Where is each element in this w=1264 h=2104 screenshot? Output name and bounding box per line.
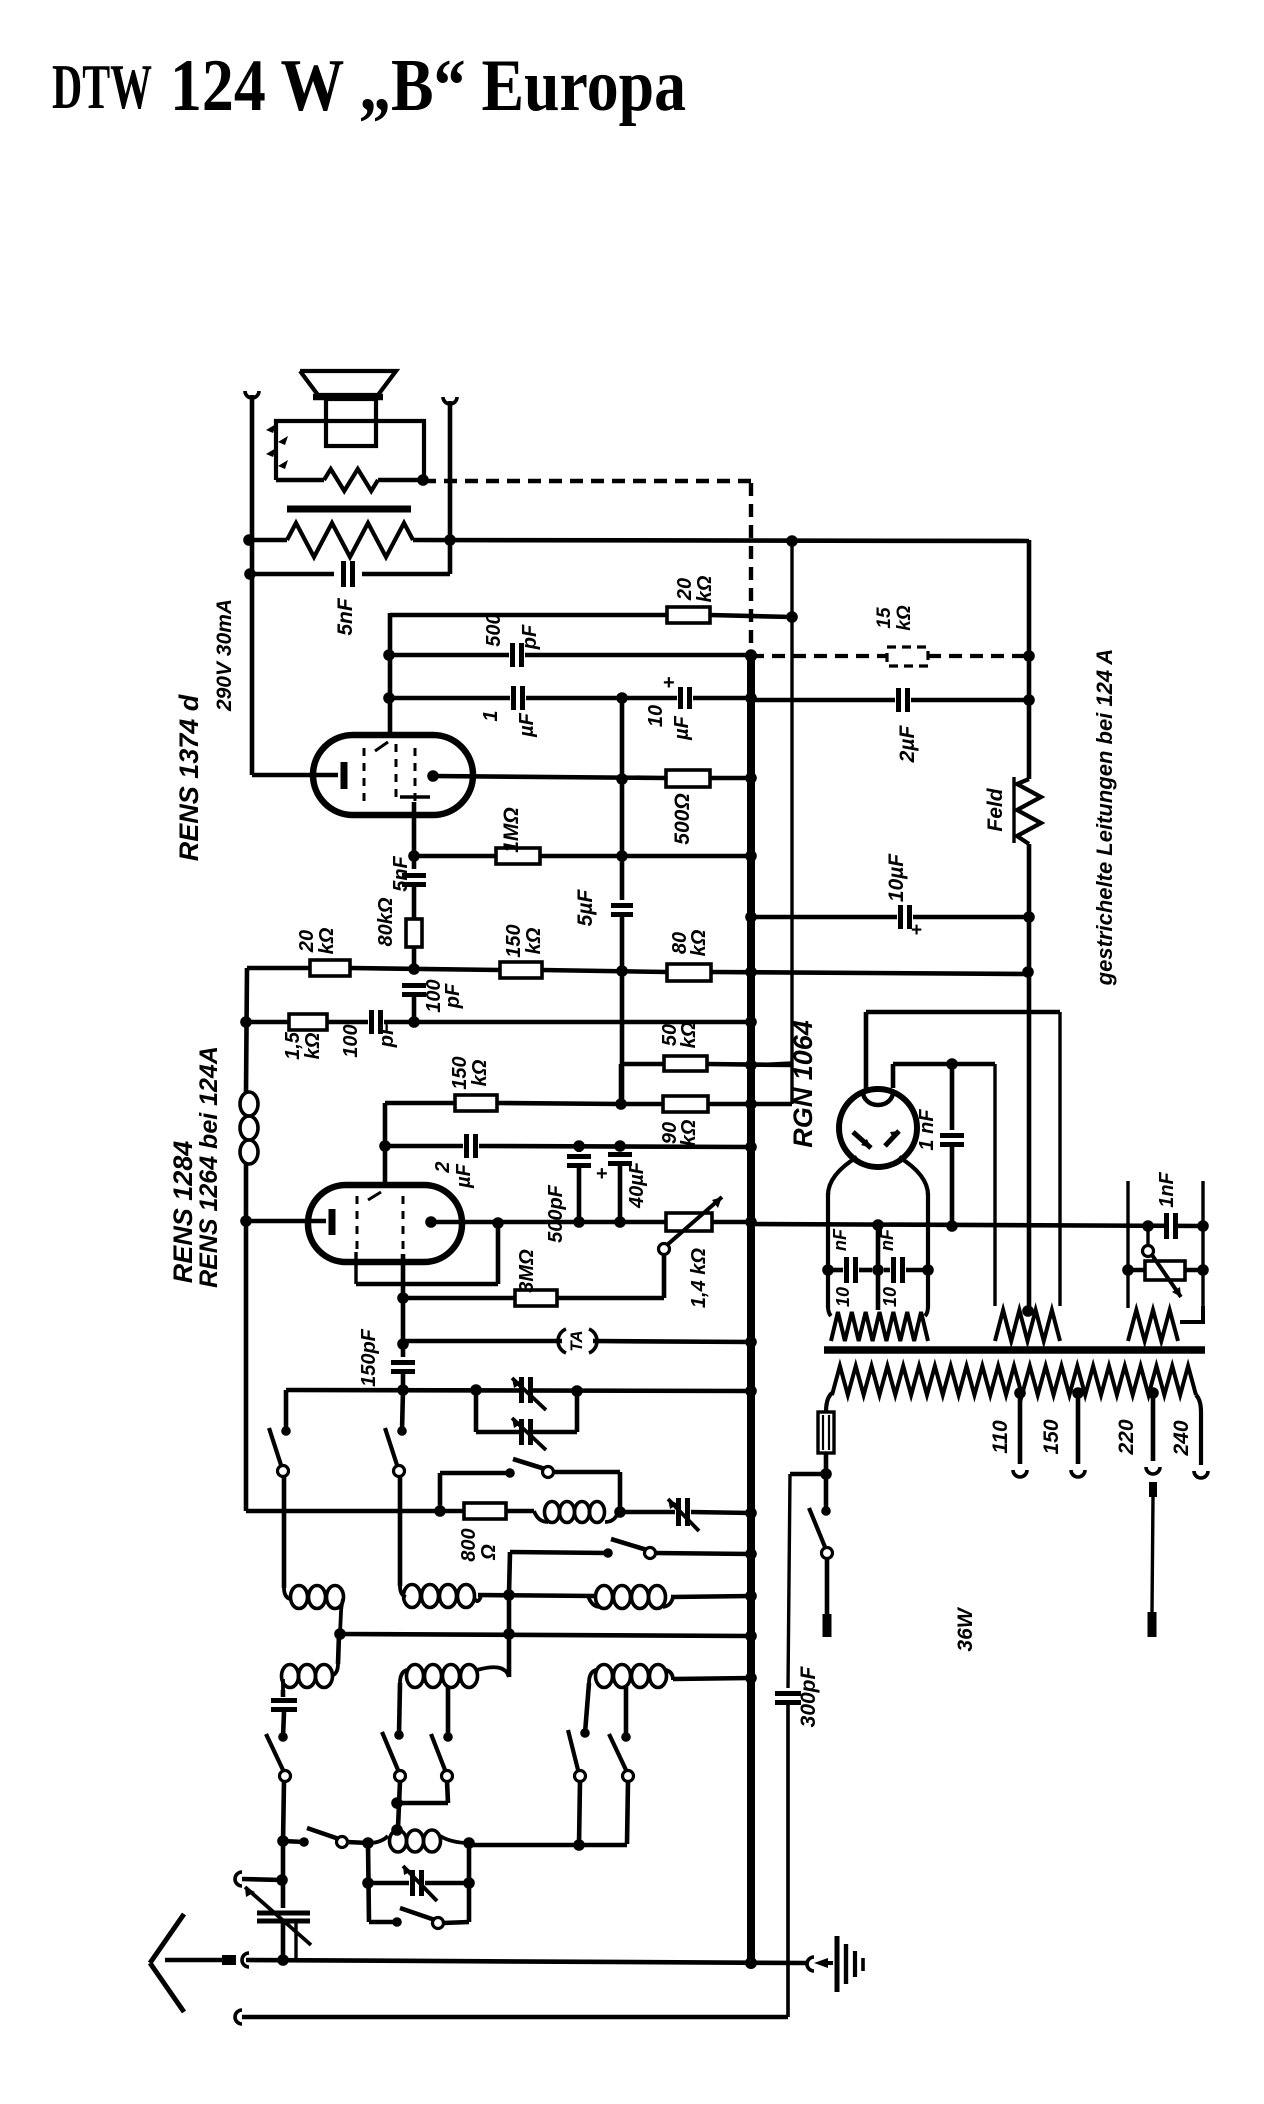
node bus-1636: [745, 1630, 757, 1642]
label 5nF: [334, 597, 357, 636]
label 5nF cathode: [390, 855, 412, 891]
tube2 cathode bar: [246, 1209, 332, 1235]
switch S9: [609, 1732, 634, 1844]
dashed wire: [751, 654, 887, 658]
wire screen loop: [356, 1223, 498, 1284]
variable capacitor antenna: [245, 1887, 311, 1959]
capacitor coilD: [271, 1690, 297, 1737]
tube RGN1064 envelope: [839, 1089, 917, 1167]
svg-text:TA: TA: [567, 1330, 586, 1351]
wire antenna line: [246, 1960, 806, 1963]
node right-2uF: [1023, 694, 1035, 706]
resistor 1M: [414, 848, 751, 864]
node bus-656: [745, 650, 757, 662]
svg-text:RENS 1374 d: RENS 1374 d: [174, 694, 204, 861]
wire avc line: [247, 968, 1028, 974]
svg-text:RGN 1064: RGN 1064: [788, 1020, 818, 1148]
voice coil arrows: [266, 424, 288, 469]
node 20k-x792: [786, 611, 798, 623]
svg-text:220: 220: [1115, 1419, 1138, 1455]
node bus-S4: [745, 1548, 757, 1560]
node bus-ant: [745, 1957, 757, 1969]
svg-text:+: +: [663, 672, 675, 694]
node: [946, 1058, 958, 1070]
svg-text:500Ω: 500Ω: [671, 793, 694, 844]
label 1M: [500, 807, 523, 853]
antenna coil G: [362, 1824, 469, 1852]
svg-text:µF: µF: [671, 715, 693, 741]
node rail-transformer: [243, 534, 255, 546]
winding HT: [995, 1310, 1060, 1341]
wire heater stub left: [1126, 1181, 1129, 1308]
svg-text:1,4 kΩ: 1,4 kΩ: [688, 1248, 710, 1308]
switch S11: [369, 1908, 469, 1929]
svg-text:20: 20: [296, 930, 318, 953]
capacitor 500pF ar: [567, 1146, 591, 1222]
wire: [710, 776, 751, 781]
node bus-10uF: [745, 911, 757, 923]
svg-text:Feld: Feld: [984, 787, 1007, 831]
svg-text:500pF: 500pF: [545, 1184, 567, 1243]
label 300pF: [797, 1665, 820, 1727]
ground: [837, 1936, 863, 1992]
svg-text:300pF: 300pF: [797, 1665, 820, 1727]
coil in rail: [240, 1092, 258, 1164]
svg-text:RENS 1284: RENS 1284: [168, 1141, 198, 1284]
label 40uF: [626, 1161, 648, 1209]
node: [503, 1589, 515, 1601]
tap 220: [1146, 1387, 1160, 1474]
node: [434, 1505, 446, 1517]
svg-text:kΩ: kΩ: [678, 1119, 700, 1146]
label 15 kOhm: [874, 605, 915, 631]
label 240: [1170, 1420, 1193, 1456]
label 2uF coupling: [432, 1161, 475, 1188]
trimmer cap 3: [620, 1498, 751, 1531]
label 150k2: [449, 1056, 491, 1089]
coil F tap: [624, 1687, 629, 1737]
node: [391, 1797, 403, 1809]
label 1nF rgn: [916, 1109, 938, 1151]
node bus-500pF: [745, 649, 757, 661]
node: [573, 1140, 585, 1152]
node: [397, 1384, 409, 1396]
label 20 kOhm top: [674, 575, 716, 602]
wire grid2 down: [401, 1298, 406, 1357]
wire: [671, 1596, 751, 1597]
node bus-500ohm: [745, 772, 757, 784]
capacitor 100pF horizontal: [327, 1010, 751, 1034]
wire x792 vertical: [751, 541, 792, 1065]
wire left rail lower: [246, 968, 247, 1092]
node: [616, 850, 628, 862]
node bus-avc: [745, 966, 757, 978]
terminal hook right: [443, 397, 457, 404]
label gestrichelte Leitungen bei 124 A: [1092, 649, 1117, 987]
switch S7: [397, 1732, 453, 1803]
tube cathode bar: [252, 762, 344, 789]
resistor 150k: [500, 962, 542, 978]
node bus-1uF: [745, 692, 757, 704]
svg-text:kΩ: kΩ: [523, 927, 545, 954]
node bus-osc: [745, 1507, 757, 1519]
label 36W: [954, 1606, 977, 1651]
wire tuner top: [286, 1390, 751, 1391]
node: [614, 1216, 626, 1228]
resistor 90k: [621, 1063, 792, 1112]
wire: [673, 1678, 751, 1679]
svg-text:kΩ: kΩ: [302, 1032, 324, 1059]
label 500 pF: [483, 613, 541, 650]
terminal hook middle: [235, 1872, 282, 1886]
node rail-5nF: [244, 568, 256, 580]
node: [1197, 1220, 1209, 1232]
label 80 kOhm right: [669, 929, 710, 956]
tube bottom bar: [400, 795, 430, 799]
capacitor 5nF cathode: [402, 876, 426, 920]
wire second antenna line: [242, 1705, 788, 2017]
coil B: [400, 1585, 481, 1608]
svg-text:pF: pF: [376, 1022, 398, 1048]
node: [240, 1215, 252, 1227]
label Feld: [984, 777, 1014, 843]
node bus-coilC: [745, 1590, 757, 1602]
svg-text:36W: 36W: [954, 1606, 977, 1651]
potentiometer 1,4k: [659, 1197, 723, 1255]
node: [1142, 1220, 1154, 1232]
wire S4 to coil row: [507, 1594, 512, 1677]
winding heater output: [1128, 1306, 1203, 1341]
svg-text:kΩ: kΩ: [894, 605, 915, 631]
wire RGN anode2: [893, 1064, 995, 1306]
loudspeaker cone: [300, 371, 396, 397]
transformer core: [824, 1346, 1205, 1354]
label 100 pF vert: [423, 979, 464, 1012]
switch S3: [440, 1459, 620, 1512]
node bus-tuner: [745, 1385, 757, 1397]
node: [872, 1219, 884, 1231]
capacitor 100pF vertical: [402, 986, 426, 1023]
node bus-1M: [745, 850, 757, 862]
svg-text:5µF: 5µF: [574, 889, 597, 927]
label 90 kOhm: [659, 1119, 700, 1146]
wire filament center tap: [876, 1225, 881, 1310]
node: [616, 773, 628, 785]
resistor 150k2: [455, 1095, 621, 1111]
node: [922, 1264, 934, 1276]
wire 20k line: [390, 613, 667, 618]
capacitor 10nF a: [828, 1257, 872, 1283]
label 500pF ar: [545, 1184, 567, 1243]
wire x283 lower: [281, 1843, 286, 1908]
node: [379, 1140, 391, 1152]
coil osc: [506, 1502, 618, 1523]
coil D: [282, 1634, 340, 1690]
terminal hook left: [245, 391, 259, 398]
label 150pF: [358, 1328, 380, 1387]
switch S8: [568, 1728, 590, 1845]
label RENS 1374 d: [174, 694, 204, 861]
node: [1122, 1264, 1134, 1276]
label 150: [1040, 1419, 1063, 1454]
wire cathode right: [751, 1224, 1203, 1226]
antenna symbol: [150, 1914, 184, 2012]
wire blockL: [368, 1843, 369, 1922]
svg-text:+: +: [911, 920, 922, 941]
resistor 80k right: [667, 964, 711, 981]
wire 50k-90k vertical: [619, 1064, 624, 1104]
node right-10uF: [1023, 911, 1035, 923]
label 10uF lower: [885, 853, 908, 902]
node x792 top: [786, 535, 798, 547]
capacitor 500pF top: [389, 643, 751, 667]
label 220: [1115, 1419, 1138, 1455]
node: [334, 1628, 346, 1640]
svg-text:5nF: 5nF: [390, 855, 412, 891]
dashed wire: [928, 654, 1029, 658]
capacitor 10nF b: [884, 1257, 928, 1283]
hook 240: [1194, 1471, 1208, 1478]
node: [408, 963, 420, 975]
node bus-TA: [745, 1336, 757, 1348]
svg-text:1: 1: [480, 710, 502, 721]
node: [362, 1877, 374, 1889]
label 3M: [516, 1249, 538, 1293]
capacitor 5nF: [250, 561, 450, 587]
node: [616, 692, 628, 704]
wire 3M line: [397, 1254, 515, 1304]
label 1,4 kOhm: [688, 1248, 710, 1308]
power switch: [809, 1506, 833, 1637]
wire cathode down: [412, 802, 417, 869]
label 290V 30mA: [213, 599, 236, 712]
wire right vertical upper: [1027, 540, 1032, 779]
potentiometer hum: [1128, 1226, 1203, 1297]
svg-text:15: 15: [874, 607, 895, 629]
svg-text:150: 150: [503, 924, 525, 957]
capacitor 150pF: [391, 1363, 415, 1392]
svg-text:DTW: DTW: [52, 51, 152, 122]
node: [408, 1016, 420, 1028]
svg-text:kΩ: kΩ: [694, 575, 716, 602]
dashed vertical wire: [749, 483, 753, 653]
svg-text:150: 150: [449, 1056, 471, 1089]
wire 800 line: [246, 1509, 464, 1511]
capacitor 300pF: [775, 1694, 801, 2018]
bus main vertical: [747, 652, 755, 1963]
transformer primary winding: [249, 523, 1029, 557]
resistor 3M: [515, 1253, 664, 1306]
node: [463, 1837, 475, 1849]
node: [397, 1338, 409, 1350]
trimmer branch box: [470, 1384, 583, 1432]
svg-text:1nF: 1nF: [1156, 1171, 1178, 1207]
resistor 800: [464, 1503, 506, 1519]
svg-text:1 nF: 1 nF: [916, 1109, 938, 1151]
node bus-2uF: [745, 1141, 757, 1153]
node: [383, 692, 395, 704]
resistor 1k5: [289, 1014, 327, 1030]
node: [946, 1220, 958, 1232]
node: [408, 850, 420, 862]
node: [383, 649, 395, 661]
svg-text:800: 800: [458, 1528, 480, 1561]
svg-text:pF: pF: [442, 983, 464, 1009]
capacitor 1nF rgn: [940, 1064, 964, 1226]
wire coilE left arm: [399, 1683, 400, 1735]
svg-text:2µF: 2µF: [896, 725, 919, 764]
output transformer core: [287, 506, 411, 513]
svg-text:80kΩ: 80kΩ: [375, 897, 397, 946]
resistor 20k left: [310, 960, 350, 976]
wire grid vertical: [388, 613, 393, 737]
wire: [250, 395, 255, 775]
resistor 15k dashed: [887, 647, 928, 666]
dashed wire to 124A: [423, 479, 751, 483]
svg-text:1,5: 1,5: [282, 1031, 304, 1060]
wire 150k2: [385, 1101, 455, 1106]
capacitor 5uF: [611, 698, 633, 1104]
terminal TA: [403, 1329, 751, 1353]
svg-text:kΩ: kΩ: [678, 1021, 700, 1048]
svg-text:500: 500: [483, 613, 505, 646]
svg-text:290V 30mA: 290V 30mA: [213, 599, 236, 712]
svg-text:240: 240: [1170, 1420, 1193, 1456]
switch S4: [509, 1539, 751, 1594]
resistor 20k: [667, 607, 710, 623]
wire RGN filament right: [899, 1157, 928, 1308]
svg-text:10: 10: [880, 1287, 900, 1307]
svg-text:RENS 1264 bei 124A: RENS 1264 bei 124A: [195, 1046, 223, 1288]
wire right vertical lower: [1027, 844, 1032, 1312]
wire fuse down: [824, 1453, 829, 1511]
coil F: [589, 1665, 673, 1688]
wire: [478, 1595, 595, 1596]
humbucking coil box: [276, 421, 424, 480]
svg-text:124 W „B“ Europa: 124 W „B“ Europa: [170, 45, 686, 127]
label 5uF: [574, 889, 597, 927]
ground terminal hook: [807, 1957, 814, 1971]
label 10 uF: [645, 705, 693, 741]
trimmer cap 1: [512, 1377, 546, 1410]
wire RGN filament left: [828, 1157, 857, 1308]
label RENS 1284: [168, 1046, 223, 1288]
winding heater RGN: [828, 1306, 928, 1341]
tube plate: [427, 770, 666, 782]
resistor in speaker box: [276, 469, 423, 491]
coil C: [588, 1586, 673, 1609]
svg-text:5nF: 5nF: [334, 597, 357, 636]
node: [1197, 1264, 1209, 1276]
node: [463, 1877, 475, 1889]
capacitor 40uF: [596, 1146, 632, 1222]
svg-text:Ω: Ω: [478, 1544, 500, 1561]
tube RENS1374d envelope: [313, 735, 473, 815]
wire blockR: [467, 1843, 472, 1922]
trimmer cap 4: [368, 1866, 469, 1901]
capacitor 1uF: [389, 686, 677, 710]
node bus-cath: [745, 1216, 757, 1228]
wire RGN anode1: [866, 1012, 1060, 1306]
label 800 Ohm: [458, 1528, 500, 1561]
coil E: [400, 1586, 509, 1688]
capacitor 10uF lower: [751, 905, 1029, 941]
resistor 80k vertical: [406, 919, 422, 971]
loudspeaker magnet: [326, 399, 376, 446]
trimmer cap 2: [512, 1418, 546, 1450]
node: [573, 1839, 585, 1851]
svg-text:10: 10: [645, 705, 667, 727]
node: [614, 1506, 626, 1518]
wire left rail lower2: [244, 1164, 249, 1509]
svg-text:kΩ: kΩ: [688, 929, 710, 956]
node: [615, 1098, 627, 1110]
tube grids dashed: [364, 742, 415, 802]
svg-text:10: 10: [833, 1287, 853, 1307]
node right-vert transformer: [444, 534, 456, 546]
label 2uF: [896, 725, 919, 764]
svg-text:2: 2: [432, 1161, 454, 1173]
label 10nF a: [830, 1228, 853, 1307]
node speaker-dashed junction: [417, 474, 429, 486]
node bus-coilF: [745, 1672, 757, 1684]
svg-text:µF: µF: [453, 1163, 475, 1189]
node: [614, 1140, 626, 1152]
label 500 Ohm: [671, 793, 694, 844]
node: [276, 1874, 288, 1886]
wire coilF left arm: [585, 1683, 589, 1733]
coil E tap: [446, 1687, 451, 1737]
node: [492, 1217, 504, 1229]
label 1,5 kOhm: [282, 1031, 324, 1060]
tube RGN anodes: [853, 1131, 899, 1148]
tap 110: [1013, 1387, 1027, 1477]
switch S5: [266, 1732, 291, 1843]
tube RENS1284 envelope: [308, 1185, 462, 1262]
terminal hook bottom: [235, 2010, 242, 2024]
svg-text:20: 20: [674, 578, 696, 601]
svg-text:µF: µF: [516, 712, 538, 738]
node: [240, 1016, 252, 1028]
wire: [448, 401, 453, 574]
label 80kOhm: [375, 897, 397, 946]
node: [872, 1264, 884, 1276]
label 10nF b: [877, 1228, 900, 1307]
tube2 grids dashed: [357, 1192, 403, 1252]
wire 300pF branch: [788, 1474, 826, 1688]
capacitor 2uF coupling: [385, 1134, 751, 1158]
coil A: [284, 1586, 344, 1635]
svg-text:1MΩ: 1MΩ: [500, 807, 523, 853]
wire plate2 line: [431, 1220, 666, 1225]
switch S1: [269, 1390, 291, 1588]
svg-text:nF: nF: [830, 1228, 850, 1251]
label 1nF right: [1156, 1171, 1178, 1207]
node right-15k: [1023, 650, 1035, 662]
capacitor 2uF: [751, 688, 1029, 712]
fuse: [818, 1412, 834, 1453]
svg-text:pF: pF: [519, 624, 541, 650]
wire: [712, 1220, 751, 1225]
field coil Feld: [1017, 779, 1041, 844]
label 50 kOhm: [659, 1021, 700, 1048]
node winding center tap: [1022, 1305, 1034, 1317]
svg-text:3MΩ: 3MΩ: [516, 1249, 538, 1293]
svg-text:10µF: 10µF: [885, 853, 908, 902]
svg-text:gestrichelte Leitungen bei 124: gestrichelte Leitungen bei 124 A: [1092, 649, 1117, 987]
svg-text:150pF: 150pF: [358, 1328, 380, 1387]
label 100 pF horiz: [340, 1022, 398, 1058]
